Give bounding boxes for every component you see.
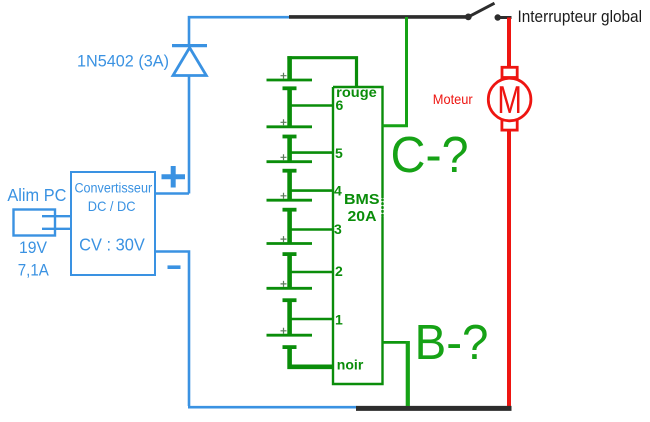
- wire converter - output down to bottom: [155, 252, 357, 408]
- plus mark B2: [281, 119, 287, 125]
- svg-text:BMS: BMS: [344, 192, 380, 208]
- minus terminal symbol: [168, 265, 181, 269]
- svg-text:20A: 20A: [348, 209, 378, 225]
- wire battery bottom to BMS noir: [290, 347, 333, 367]
- plus terminal symbol: [162, 166, 186, 188]
- svg-text:19V: 19V: [19, 238, 48, 257]
- battery cell B4: [267, 200, 313, 210]
- svg-text:6: 6: [336, 97, 344, 113]
- battery cell B2: [267, 127, 313, 137]
- svg-text:Convertisseur: Convertisseur: [74, 180, 152, 195]
- svg-text:1N5402 (3A): 1N5402 (3A): [77, 53, 169, 71]
- plus mark B4: [281, 193, 287, 199]
- battery cell B5: [267, 244, 313, 255]
- wire diode cathode up and top blue wire: [189, 17, 290, 45]
- wire B3 to B4: [287, 171, 292, 201]
- wire tap 3: [290, 228, 333, 231]
- wire top black to switch: [289, 15, 467, 19]
- svg-text:C-?: C-?: [391, 126, 469, 183]
- wire B4 to B5: [287, 210, 292, 244]
- plus mark B1: [281, 73, 287, 79]
- svg-text:4: 4: [334, 182, 342, 198]
- wire B2 to B3: [287, 137, 292, 162]
- svg-text:CV : 30V: CV : 30V: [79, 235, 145, 255]
- svg-text:2: 2: [335, 263, 343, 279]
- wire B1 to B2: [287, 88, 292, 127]
- battery cell B6: [267, 288, 313, 300]
- wire B6 to B7: [287, 300, 292, 335]
- svg-text:Interrupteur global: Interrupteur global: [518, 7, 643, 26]
- plus mark B3: [281, 154, 287, 160]
- wire diode anode to converter: [188, 76, 191, 194]
- svg-text:Alim PC: Alim PC: [7, 185, 66, 205]
- BMS U2 box: [333, 87, 383, 384]
- wire B- vertical: [406, 341, 410, 406]
- svg-text:DC / DC: DC / DC: [88, 198, 136, 214]
- wire red motor to bottom: [507, 130, 511, 407]
- wire bottom black: [356, 406, 512, 411]
- wire tap 6: [290, 104, 333, 107]
- battery cell B3: [267, 162, 313, 171]
- svg-text:5: 5: [335, 145, 343, 161]
- svg-text:3: 3: [334, 221, 342, 237]
- diode D1 1N5402: [172, 46, 207, 76]
- plus mark B5: [281, 236, 287, 242]
- svg-text:B-?: B-?: [415, 316, 489, 370]
- connector plug (Alim PC): [14, 210, 72, 236]
- motor M1: [488, 67, 531, 130]
- wire tap 5: [290, 151, 333, 154]
- battery cell B1: [267, 80, 313, 88]
- wire tap 4: [290, 189, 333, 192]
- battery cell B7: [267, 335, 313, 347]
- svg-text:M: M: [497, 79, 522, 122]
- switch SW1 (interrupteur): [465, 3, 512, 21]
- wire red switch to motor: [507, 18, 511, 69]
- plus mark B7: [281, 328, 287, 334]
- converter U1 box: [71, 172, 155, 275]
- wire tap 1: [290, 318, 333, 321]
- wire C- from BMS to top (bright green): [383, 17, 407, 126]
- wire tap 2: [290, 271, 333, 274]
- wire converter + output: [155, 192, 189, 195]
- wire B- from BMS to bottom (bright green): [383, 341, 408, 344]
- wire B5 to B6: [287, 254, 292, 288]
- svg-text:7,1A: 7,1A: [18, 261, 50, 280]
- plus mark B6: [281, 281, 287, 287]
- svg-text:Moteur: Moteur: [433, 91, 473, 107]
- wire battery top to BMS rouge: [287, 56, 292, 80]
- svg-text:1: 1: [335, 312, 343, 328]
- svg-text:noir: noir: [337, 358, 364, 373]
